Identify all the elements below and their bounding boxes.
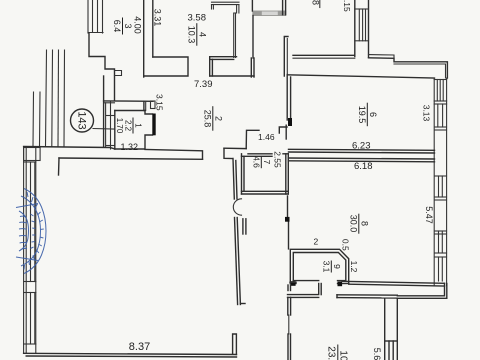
room 1 thick black wall — [152, 114, 155, 136]
svg-text:5.6: 5.6 — [372, 348, 382, 360]
svg-text:2: 2 — [213, 116, 223, 121]
window E — [438, 257, 440, 281]
small notch on that wall — [115, 71, 122, 76]
svg-text:3.15: 3.15 — [155, 94, 165, 111]
svg-text:143: 143 — [76, 111, 88, 129]
room 1 labels — [115, 118, 143, 134]
corridor piece below room 3: L outline — [144, 57, 188, 76]
svg-text:1.46: 1.46 — [258, 132, 275, 142]
svg-text:3.58: 3.58 — [188, 13, 207, 24]
svg-text:30.0: 30.0 — [348, 215, 358, 233]
room 7 box — [242, 154, 289, 194]
apartment number circle 143 — [71, 109, 94, 132]
svg-text:8.37: 8.37 — [129, 341, 150, 353]
door arc big room — [233, 199, 241, 215]
big room top wall L1 — [24, 147, 115, 150]
room 2 neck top walls — [210, 57, 254, 77]
bottom wall of big room — [24, 353, 237, 357]
top wall band over rooms 4/2 — [212, 2, 240, 57]
corridor left wall upper segment — [233, 159, 246, 355]
vertical from that wall down to room1 top — [143, 101, 145, 110]
svg-text:3.1: 3.1 — [321, 261, 331, 273]
small duct rect right of it — [151, 101, 156, 109]
band B1 below room1 to door — [59, 148, 247, 175]
svg-text:7: 7 — [262, 160, 272, 165]
svg-text:2.55: 2.55 — [273, 151, 283, 168]
wall right of stairs — [103, 76, 105, 147]
svg-text:1.70: 1.70 — [115, 118, 124, 134]
wall left of room 1 — [110, 102, 112, 150]
stairwell shaft walls — [354, 0, 356, 57]
wall above room 1 horizontal — [104, 100, 153, 102]
leader line from circle — [93, 128, 115, 131]
niche above room 7 — [246, 125, 287, 148]
svg-text:4: 4 — [197, 32, 207, 37]
room 6 labels — [357, 103, 378, 127]
svg-text:19.5: 19.5 — [357, 106, 367, 124]
room 1 box — [115, 111, 153, 150]
svg-text:6.4: 6.4 — [112, 20, 122, 33]
svg-text:0.5: 0.5 — [340, 239, 350, 251]
entry hall right wall — [284, 37, 288, 77]
entry door gray band — [253, 11, 286, 16]
svg-text:2: 2 — [314, 237, 319, 247]
svg-text:23.3: 23.3 — [325, 346, 336, 360]
svg-text:6: 6 — [368, 112, 378, 117]
entry hall left wall — [252, 16, 254, 59]
wall right of entry door — [282, 0, 284, 15]
svg-text:25.8: 25.8 — [202, 110, 212, 128]
room 10 top jog walls — [288, 284, 398, 299]
window D — [438, 231, 440, 253]
room 3 label — [112, 18, 133, 35]
hatched stair area — [33, 50, 65, 147]
room 6 top wall — [287, 75, 434, 78]
svg-text:5.47: 5.47 — [424, 206, 434, 224]
room 6 left wall upper — [286, 75, 288, 121]
svg-text:10.3: 10.3 — [186, 26, 196, 44]
svg-text:3.31: 3.31 — [153, 9, 163, 27]
window C — [438, 176, 440, 197]
svg-text:7.39: 7.39 — [194, 79, 213, 90]
svg-text:8: 8 — [311, 0, 321, 5]
svg-text:3: 3 — [123, 23, 133, 28]
window A — [436, 80, 438, 102]
svg-text:6.18: 6.18 — [354, 161, 373, 172]
window B — [437, 104, 439, 127]
room 3 / room 4 divider wall (double) — [143, 0, 145, 77]
room 9 label — [321, 261, 342, 273]
svg-text:10: 10 — [337, 350, 348, 360]
room 2 label — [202, 106, 223, 131]
stairwell window — [355, 9, 369, 41]
stepped wall below window (room 3 west side) — [89, 33, 115, 101]
svg-text:1: 1 — [134, 123, 143, 128]
svg-text:3.13: 3.13 — [422, 105, 432, 122]
svg-text:4.00: 4.00 — [133, 16, 143, 34]
svg-text:4.6: 4.6 — [251, 156, 261, 168]
wall y56 from entry hall to shaft — [293, 54, 355, 56]
corridor bottom segments — [288, 285, 291, 360]
svg-text:.15: .15 — [342, 0, 352, 12]
room 10 label (cut at bottom) — [325, 345, 348, 360]
svg-text:8: 8 — [359, 221, 369, 226]
svg-text:6.23: 6.23 — [352, 141, 371, 152]
door block on room6 left wall — [288, 118, 292, 126]
window top-left outer wall — [88, 0, 103, 33]
wall y57.5 right of shaft going to right wing — [369, 58, 448, 78]
svg-text:1.2: 1.2 — [349, 261, 359, 273]
svg-text:1.32: 1.32 — [121, 142, 139, 152]
svg-text:9: 9 — [332, 264, 342, 269]
